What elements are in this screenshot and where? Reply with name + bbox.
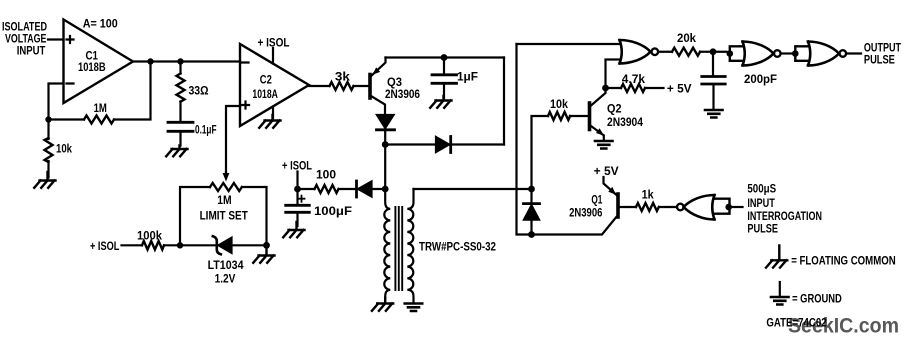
floating common below pot right: [253, 245, 274, 262]
floating common below primary: [372, 298, 393, 311]
resistor 1k: [619, 206, 677, 208]
transformer T1 secondary winding: [407, 189, 413, 302]
diode D3 vertical: [377, 115, 394, 128]
wire secondary top to right: [414, 188, 532, 190]
svg-text:PULSE: PULSE: [747, 221, 778, 235]
svg-text:200pF: 200pF: [744, 72, 777, 86]
wire C2 ground stub: [272, 107, 274, 120]
capacitor 100uF: [296, 189, 298, 204]
op-amp C1: [64, 20, 134, 104]
wire right side of loop: [503, 58, 505, 145]
floating common below 1uF: [430, 96, 451, 108]
node dot Q2 collector: [602, 85, 609, 92]
wire Q2 collector to gate1 input B: [606, 60, 620, 89]
resistor 4.7k: [606, 87, 664, 89]
svg-text:1018A: 1018A: [252, 87, 278, 101]
node junction dot: [45, 116, 51, 122]
svg-text:TRW#PC-SS0-32: TRW#PC-SS0-32: [419, 240, 496, 254]
svg-text:2N3906: 2N3906: [385, 87, 420, 101]
resistor 1M feedback: [49, 62, 151, 120]
svg-text:PULSE: PULSE: [864, 53, 895, 67]
wire gate1 input A vertical (crossover): [517, 44, 532, 235]
floating common below 0.1uF: [166, 146, 187, 157]
svg-text:4.7k: 4.7k: [622, 72, 646, 86]
transistor Q1 2N3906: [616, 194, 620, 217]
resistor 10k to floating common: [47, 120, 49, 178]
potentiometer 1M LIMIT SET: [180, 187, 267, 245]
transformer T1 primary winding: [384, 189, 390, 298]
svg-text:INPUT: INPUT: [747, 196, 775, 210]
ground below Q2: [595, 141, 613, 149]
diode D5 pointing left: [355, 181, 358, 197]
gate U1A NOR: [620, 40, 659, 64]
node dot 1uF tap: [441, 54, 448, 61]
transformer core: [395, 207, 402, 290]
gate U1D NOR inverter mirrored: [677, 204, 684, 211]
svg-text:1μF: 1μF: [457, 70, 478, 84]
svg-text:INPUT: INPUT: [17, 44, 46, 58]
wire C1 inverting input feedback: [49, 84, 64, 120]
floating common below C2: [259, 115, 280, 128]
svg-text:= GROUND: = GROUND: [792, 292, 842, 306]
svg-text:3k: 3k: [335, 70, 350, 84]
svg-text:20k: 20k: [677, 31, 696, 45]
svg-text:Q2: Q2: [607, 102, 622, 116]
wire input to C1 +: [48, 38, 64, 40]
floating common below 10k: [34, 172, 55, 188]
node dot: [382, 141, 389, 148]
zener diode LT1034: [180, 244, 267, 246]
wire gate1 input A horizontal: [517, 43, 620, 45]
wire Q1 collector row: [532, 216, 618, 235]
svg-text:+ 5V: + 5V: [594, 164, 619, 178]
floating common below 100uF: [283, 222, 304, 237]
wire top rail Q3 emitter: [386, 56, 505, 58]
svg-text:LIMIT SET: LIMIT SET: [200, 209, 249, 223]
node dot 33ohm tap: [177, 58, 183, 64]
legend ground symbol: [779, 282, 781, 297]
transistor Q3 2N3906: [368, 75, 372, 99]
svg-text:1018B: 1018B: [78, 60, 106, 74]
wire C1 output rail: [133, 60, 240, 62]
wire 10k branch up: [532, 116, 549, 189]
svg-text:100: 100: [316, 168, 336, 182]
resistor 100: [298, 188, 356, 190]
diode D6 vertical pointing up: [524, 202, 540, 205]
svg-text:C2: C2: [260, 73, 272, 87]
node dot feedback tap: [147, 58, 153, 64]
svg-text:+ ISOL: + ISOL: [90, 239, 119, 253]
transistor Q2 2N3904: [588, 103, 592, 130]
diode D4 horizontal: [385, 143, 504, 145]
svg-text:500μS: 500μS: [747, 182, 776, 196]
legend floating common symbol: [766, 246, 787, 268]
gate U1C NOR inverter: [795, 46, 808, 61]
resistor 100k: [122, 244, 181, 246]
svg-text:100k: 100k: [137, 229, 162, 243]
svg-text:2N3906: 2N3906: [569, 205, 603, 219]
svg-text:2N3904: 2N3904: [607, 115, 643, 129]
svg-text:10k: 10k: [550, 97, 568, 111]
wire +ISOL power stub C2: [272, 48, 274, 64]
wire down to transformer junction: [384, 145, 386, 190]
svg-text:1k: 1k: [642, 187, 654, 201]
resistor 10k Q2 base: [570, 115, 588, 117]
svg-text:1.2V: 1.2V: [215, 272, 236, 286]
capacitor 0.1uF: [168, 122, 193, 131]
svg-text:SeekIC.com: SeekIC.com: [788, 315, 899, 338]
node ISOLATED VOLTAGE INPUT label: [2, 20, 47, 58]
svg-text:100μF: 100μF: [314, 204, 352, 218]
capacitor 1uF: [443, 58, 445, 74]
node 500uS INPUT INTERROGATION PULSE label: [747, 182, 822, 236]
ground below 200pF: [705, 110, 723, 118]
capacitor 200pF: [712, 52, 714, 75]
wire C2 + input down to pot wiper: [226, 106, 240, 172]
resistor 3k: [309, 85, 369, 87]
svg-text:= FLOATING COMMON: = FLOATING COMMON: [791, 253, 896, 267]
ground below secondary: [405, 304, 423, 312]
node OUTPUT PULSE label: [864, 40, 902, 66]
svg-text:0.1μF: 0.1μF: [195, 123, 217, 137]
node dot transformer primary top: [382, 186, 389, 193]
svg-text:1M: 1M: [217, 193, 231, 207]
resistor 33ohm: [179, 62, 181, 121]
svg-text:LT1034: LT1034: [208, 258, 244, 272]
svg-text:+ 5V: + 5V: [667, 81, 692, 95]
svg-text:A= 100: A= 100: [83, 17, 118, 31]
gate U1B NOR inverter: [730, 46, 743, 61]
op-amp C2: [240, 44, 309, 126]
svg-text:10k: 10k: [56, 141, 72, 155]
wiper arrowhead: [223, 173, 230, 182]
svg-text:1M: 1M: [94, 101, 107, 115]
svg-text:33Ω: 33Ω: [189, 84, 209, 98]
resistor 20k: [700, 51, 713, 53]
